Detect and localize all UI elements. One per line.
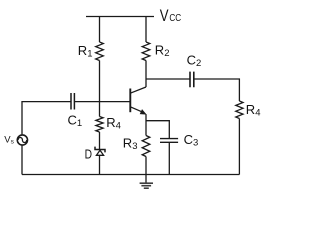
wire emitter node to C3 bbox=[146, 121, 169, 138]
resistor R4 (bias) bbox=[96, 117, 103, 133]
wire R2 top bbox=[145, 17, 147, 43]
svg-text:R4: R4 bbox=[106, 115, 121, 132]
resistor R4 (load) bbox=[236, 101, 243, 119]
wire R1 top bbox=[99, 17, 101, 43]
wire C1 to base bbox=[74, 101, 129, 103]
wire R4 load bottom bbox=[238, 119, 240, 175]
svg-text:R4: R4 bbox=[246, 102, 261, 119]
wire collector node to C2 bbox=[146, 78, 190, 80]
wire source top bbox=[22, 102, 71, 135]
svg-text:C2: C2 bbox=[187, 52, 202, 69]
diode D (zener) bbox=[85, 146, 105, 161]
capacitor C2 bbox=[190, 72, 194, 88]
wire diode to bottom rail bbox=[99, 155, 101, 174]
svg-text:V: V bbox=[160, 7, 169, 25]
svg-text:CC: CC bbox=[169, 12, 181, 24]
wire top VCC rail bbox=[86, 16, 154, 18]
capacitor C3 bbox=[160, 139, 178, 143]
wire R2 bottom to collector bbox=[145, 61, 147, 88]
resistor R3 bbox=[142, 136, 150, 157]
svg-text:C3: C3 bbox=[184, 132, 199, 149]
source Vs bbox=[17, 135, 27, 145]
wire R4 to diode bbox=[99, 132, 101, 150]
wire emitter down bbox=[145, 114, 147, 135]
ground bbox=[140, 175, 153, 189]
capacitor C1 bbox=[71, 93, 74, 110]
wire C2 to right branch bbox=[194, 79, 240, 101]
wire C3 to bottom rail bbox=[168, 143, 170, 175]
svg-text:Vs: Vs bbox=[4, 135, 14, 146]
svg-text:D: D bbox=[85, 146, 92, 161]
svg-text:R2: R2 bbox=[155, 43, 170, 60]
svg-text:R3: R3 bbox=[123, 136, 138, 153]
wire source bottom bbox=[21, 146, 23, 175]
wire R1 bottom to base node bbox=[99, 61, 101, 102]
transistor Q1 bbox=[130, 87, 146, 114]
wire R3 to bottom rail bbox=[145, 157, 147, 175]
wire base node down to R4 bbox=[99, 102, 101, 117]
wire bottom rail bbox=[22, 174, 239, 176]
svg-text:R1: R1 bbox=[78, 43, 93, 60]
svg-text:C1: C1 bbox=[68, 113, 83, 130]
resistor R2 bbox=[142, 42, 150, 61]
resistor R1 bbox=[96, 42, 104, 61]
